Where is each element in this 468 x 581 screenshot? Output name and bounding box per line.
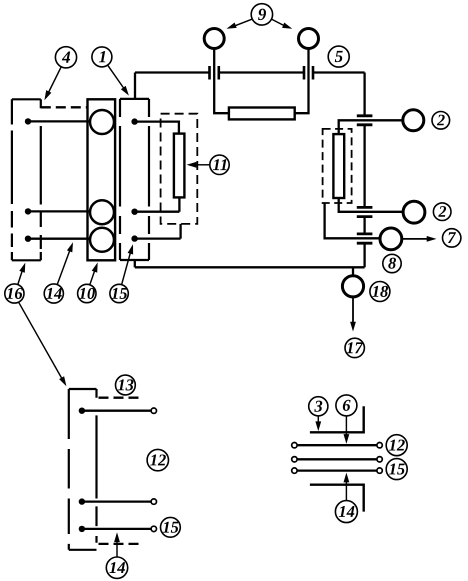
- dashed line top of sub-figure: [99, 397, 142, 399]
- dashed link between box 16 and box 10: [41, 106, 88, 108]
- leader from 9 to right pump: [272, 19, 287, 27]
- contact dot 3 (sub-figure): [79, 526, 85, 532]
- callout 15: [110, 284, 128, 302]
- wire: pump 9 right downpipe: [295, 48, 309, 113]
- leader from 9 to left pump: [233, 19, 252, 27]
- wire row3 right to dashed box 11: [135, 224, 181, 239]
- leader from 4: [48, 67, 62, 95]
- node dot row1 box1: [131, 118, 137, 124]
- contact line 3 (bottom-right): [297, 469, 377, 471]
- roller (bottom) in box 10: [90, 228, 114, 252]
- callout 5: [328, 46, 349, 67]
- bottom-left sub-figure: box 16 detail: [69, 389, 97, 550]
- callout 8: [383, 254, 401, 272]
- callout 16: [5, 284, 24, 303]
- callout 14 (bottom-right): [335, 501, 357, 523]
- leader from 15: [122, 251, 131, 285]
- wire: branch to circle 2 upper: [339, 120, 403, 134]
- wire: step from box 1 bottom to bottom bus: [134, 260, 136, 267]
- ring left line2: [292, 457, 297, 462]
- callout 10: [78, 284, 96, 302]
- wire: top manifold line segment left: [135, 71, 210, 73]
- wire row2 right to heater 11 bottom lead: [135, 197, 180, 211]
- dashed line bottom of sub-figure: [99, 543, 142, 545]
- node dot row2 box1: [131, 209, 137, 215]
- wire: bottom bus: [135, 266, 365, 268]
- contact dot 2 (sub-figure): [79, 498, 85, 504]
- contact pin 1: [82, 410, 151, 412]
- ring right line1: [377, 443, 382, 448]
- node dot row3 box1: [131, 235, 137, 241]
- right heater dashed enclosure: [323, 129, 352, 203]
- wire row3 left: [28, 238, 90, 240]
- callout 18: [370, 282, 390, 302]
- wire: pump 9 left downpipe: [214, 48, 229, 113]
- box 16 (left dashed housing): [12, 99, 41, 260]
- arrow from 14 up (bottom-right): [345, 480, 347, 501]
- pin 3 ring: [151, 526, 156, 531]
- callout 6: [336, 395, 357, 416]
- roller (middle) in box 10: [90, 200, 114, 224]
- pin 2 ring: [151, 499, 156, 504]
- ring right line2: [377, 457, 382, 462]
- callout 15 (bottom-left): [161, 517, 181, 537]
- ring right line3: [377, 468, 382, 473]
- wire: top manifold line segment right: [313, 71, 365, 73]
- callout 12 (bottom-left): [147, 449, 168, 470]
- arrow from 3 down: [317, 416, 319, 425]
- port circle 18: [342, 276, 363, 297]
- node dot row1 box16: [25, 118, 31, 124]
- wire: branch to circle 2 lower: [339, 198, 403, 212]
- leader from 16 up to box16 corner: [18, 269, 23, 285]
- box 10 (roller housing, solid): [88, 99, 116, 260]
- wire row1 right to heater 11 top lead: [135, 122, 179, 134]
- wire: feed from manifold down to box 1: [134, 73, 136, 99]
- flange joint at pump 9 right: [304, 66, 313, 80]
- heater element 11: [174, 134, 185, 198]
- callout 13: [116, 375, 136, 395]
- callout 2 upper: [432, 112, 450, 130]
- pump 9 right circle: [299, 29, 319, 49]
- port circle 2 lower: [403, 201, 425, 223]
- callout 15 (bottom-right): [386, 459, 407, 480]
- right bus vertical: [363, 73, 365, 268]
- ring left line1: [292, 443, 297, 448]
- port circle 8: [380, 228, 402, 250]
- callout 11: [210, 155, 229, 174]
- callout 12 (bottom-right): [386, 435, 407, 456]
- pin 1 ring: [151, 408, 156, 413]
- arrow from circle 8 to callout 7: [402, 238, 430, 240]
- contact pin 2: [82, 500, 151, 502]
- contact line 2 (bottom-right): [297, 458, 377, 460]
- arrow down from circle 18: [352, 297, 354, 325]
- pump 9 left circle: [204, 29, 224, 49]
- leader from 1: [108, 65, 125, 90]
- node dot row3 box16: [25, 236, 31, 242]
- leader from 14: [57, 249, 70, 285]
- wire: branch from enclosure to circle 8: [325, 203, 380, 238]
- wire row2 left: [28, 210, 90, 212]
- arrow from 11 to heater: [194, 164, 210, 166]
- accumulator tank between pumps: [229, 108, 295, 120]
- contact dot 1 (sub-figure): [79, 408, 85, 414]
- contact line 1 (bottom-right): [297, 444, 377, 446]
- box 1 (right housing): [120, 99, 149, 260]
- callout 14: [44, 284, 63, 303]
- port circle 2 upper: [403, 110, 424, 131]
- callout 7: [443, 229, 461, 247]
- roller (top) in box 10: [90, 110, 114, 134]
- wire: top manifold line segment middle: [219, 71, 304, 73]
- flange joint at pump 9 left: [210, 66, 219, 80]
- callout 2 lower: [433, 203, 451, 221]
- arrow from 6 down: [345, 416, 347, 437]
- wire row1 left: [28, 120, 90, 122]
- leader from 16 down to bottom sub-figure: [18, 302, 63, 381]
- callout 9: [251, 4, 272, 25]
- contact pin 3: [82, 528, 151, 530]
- callout 1: [92, 47, 112, 67]
- flange bars on right bus: [357, 116, 373, 243]
- node dot row2 box16: [25, 208, 31, 214]
- leader from 10: [90, 269, 96, 285]
- arrow from 14 up: [116, 539, 118, 557]
- drain stem to circle 18: [352, 267, 354, 276]
- callout 3: [309, 397, 328, 416]
- bottom-right sub-figure: top bracket: [310, 406, 364, 432]
- bottom bracket: [310, 485, 364, 512]
- callout 4: [55, 47, 76, 68]
- heater 11 dashed enclosure: [161, 114, 198, 224]
- right heater element: [333, 134, 344, 198]
- callout 14 (bottom-left): [106, 557, 127, 578]
- ring left line3: [292, 468, 297, 473]
- callout 17: [345, 338, 364, 357]
